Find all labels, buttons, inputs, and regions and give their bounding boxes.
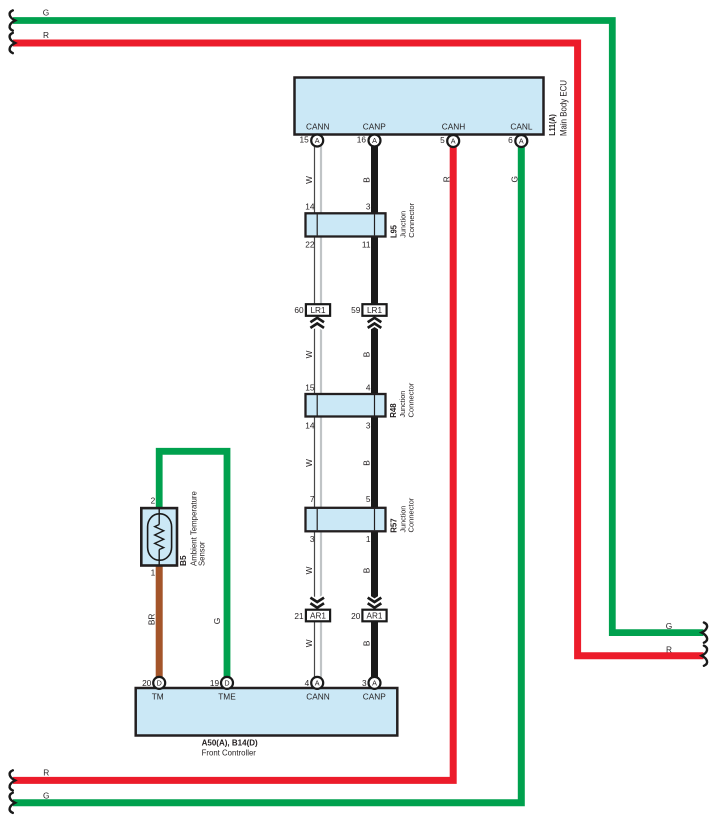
connector AR1 left box pin 21: [306, 610, 330, 622]
svg-text:CANP: CANP: [363, 691, 387, 701]
svg-text:15: 15: [305, 383, 315, 393]
svg-text:Sensor: Sensor: [197, 541, 207, 566]
svg-text:L11(A): L11(A): [547, 114, 557, 136]
connector AR1 left chevron: [310, 598, 324, 608]
connector LR1 left box pin 60: [306, 304, 330, 316]
svg-text:Main Body ECU: Main Body ECU: [559, 80, 569, 136]
svg-text:W: W: [304, 459, 314, 467]
break squiggle top left G: [10, 10, 16, 30]
wire label W column: [304, 176, 314, 647]
svg-text:Connector: Connector: [407, 497, 416, 532]
pin circle ECU 5 CANH: [440, 135, 459, 147]
wire label B column: [361, 177, 371, 646]
svg-text:14: 14: [305, 421, 315, 431]
svg-text:20: 20: [142, 678, 152, 688]
pin circle ECU 6 CANL: [508, 135, 527, 147]
svg-text:A: A: [451, 137, 456, 146]
connector LR1 right box pin 59: [362, 304, 386, 316]
connector AR1 right box pin 20: [362, 610, 386, 622]
svg-text:22: 22: [305, 240, 315, 250]
svg-text:5: 5: [440, 135, 445, 145]
svg-text:11: 11: [362, 240, 371, 250]
junction connector L95 box: [306, 213, 386, 236]
pin circle controller 4 CANN: [305, 677, 324, 689]
break squiggle right G: [702, 623, 708, 643]
svg-text:L95: L95: [389, 225, 399, 238]
svg-text:B5: B5: [178, 555, 188, 566]
front controller box A50(A) B14(D): [136, 688, 398, 736]
svg-text:15: 15: [299, 135, 309, 145]
svg-text:A: A: [315, 136, 320, 145]
svg-text:5: 5: [366, 494, 371, 504]
svg-text:R48: R48: [388, 403, 398, 418]
pin circle ECU 15 CANN: [299, 135, 323, 147]
svg-text:B: B: [361, 177, 371, 183]
svg-text:21: 21: [294, 611, 304, 621]
svg-text:3: 3: [366, 421, 371, 431]
break squiggle right R: [702, 646, 708, 666]
wire B black CANP column: [371, 141, 378, 683]
svg-text:Connector: Connector: [407, 202, 416, 237]
wire sensor G green from sensor pin2 to TME: [159, 451, 227, 683]
svg-text:R: R: [43, 767, 49, 777]
svg-text:G: G: [509, 176, 519, 182]
svg-text:59: 59: [351, 305, 361, 315]
svg-text:4: 4: [366, 383, 371, 393]
svg-text:W: W: [304, 566, 314, 574]
svg-text:Connector: Connector: [406, 382, 415, 417]
svg-text:14: 14: [305, 201, 315, 211]
svg-text:20: 20: [351, 611, 361, 621]
svg-text:CANP: CANP: [363, 122, 387, 132]
svg-text:A: A: [372, 136, 377, 145]
svg-text:B: B: [361, 640, 371, 646]
svg-text:3: 3: [366, 201, 371, 211]
pin circle controller 3 CANP: [362, 677, 381, 689]
svg-text:D: D: [157, 679, 162, 688]
sensor internal wire: [158, 508, 160, 524]
svg-text:W: W: [304, 639, 314, 647]
svg-text:4: 4: [305, 678, 310, 688]
wire BR brown sensor pin1 to TM: [156, 564, 163, 683]
svg-text:R: R: [441, 176, 451, 182]
svg-text:3: 3: [362, 678, 367, 688]
svg-text:W: W: [304, 176, 314, 184]
svg-text:B: B: [361, 460, 371, 466]
svg-text:60: 60: [294, 305, 304, 315]
connector LR1 right chevron: [368, 318, 382, 328]
svg-text:16: 16: [357, 135, 367, 145]
junction connector R48 box: [306, 394, 386, 417]
svg-text:CANN: CANN: [306, 122, 330, 132]
svg-text:A: A: [519, 137, 524, 146]
svg-text:LR1: LR1: [310, 306, 325, 315]
svg-text:G: G: [43, 790, 49, 800]
svg-text:CANL: CANL: [510, 122, 533, 132]
svg-text:3: 3: [310, 534, 315, 544]
svg-text:LR1: LR1: [367, 306, 382, 315]
wire CANL green vertical to bottom horizontal: [13, 141, 521, 803]
svg-text:R57: R57: [388, 518, 398, 533]
connector LR1 left chevron: [310, 318, 324, 328]
svg-text:G: G: [43, 7, 49, 17]
svg-text:A: A: [372, 679, 377, 688]
wire top R red horizontal then down right side: [13, 43, 704, 656]
svg-text:TME: TME: [218, 691, 236, 701]
svg-text:A50(A), B14(D): A50(A), B14(D): [202, 737, 258, 747]
sensor capsule: [148, 514, 172, 560]
connector AR1 right chevron: [368, 598, 382, 608]
wire top G green horizontal then down right side: [13, 21, 704, 633]
svg-text:2: 2: [151, 495, 156, 505]
svg-text:G: G: [666, 621, 672, 631]
svg-text:BR: BR: [146, 614, 156, 626]
svg-text:1: 1: [366, 534, 371, 544]
pin circle ECU 16 CANP: [357, 135, 381, 147]
ECU L11(A) box: [295, 78, 544, 135]
svg-text:1: 1: [151, 567, 156, 577]
pin circle controller 20 TM: [142, 677, 165, 689]
svg-text:B: B: [361, 351, 371, 357]
svg-text:R: R: [666, 644, 672, 654]
svg-text:TM: TM: [152, 691, 164, 701]
svg-text:Front Controller: Front Controller: [202, 747, 257, 757]
svg-text:7: 7: [310, 494, 315, 504]
svg-text:R: R: [43, 30, 49, 40]
svg-text:W: W: [304, 350, 314, 358]
svg-text:AR1: AR1: [367, 612, 383, 621]
svg-text:G: G: [212, 618, 222, 624]
wire W white CANN column: [315, 141, 322, 683]
sensor B5 box: [141, 508, 177, 565]
svg-text:CANH: CANH: [442, 122, 466, 132]
break squiggle bottom left G: [10, 793, 16, 813]
break squiggle top left R: [10, 33, 16, 53]
svg-text:B: B: [361, 567, 371, 573]
svg-text:6: 6: [508, 135, 513, 145]
svg-text:CANN: CANN: [306, 691, 330, 701]
svg-text:AR1: AR1: [310, 612, 326, 621]
svg-text:D: D: [224, 679, 229, 688]
junction connector R57 box: [306, 508, 386, 532]
svg-text:19: 19: [210, 678, 220, 688]
svg-text:A: A: [315, 679, 320, 688]
wire CANH red vertical to bottom horizontal: [13, 141, 453, 780]
pin circle controller 19 TME: [210, 677, 233, 689]
break squiggle bottom left R: [10, 770, 16, 790]
resistor zigzag: [155, 525, 164, 550]
